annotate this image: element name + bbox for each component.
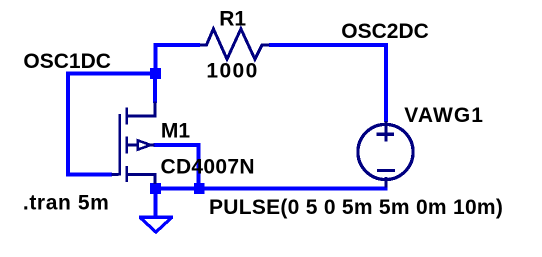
node junction square bulk/rail (194, 183, 205, 194)
transistor M1 channel segment bottom (125, 166, 128, 182)
wire: bottom rail from junction 1 to VAWG1 bottom (155, 186, 387, 190)
transistor M1 bulk lead (127, 143, 139, 146)
svg-text:.tran 5m: .tran 5m (23, 192, 110, 215)
wire: junction up to top rail, right to resistor (155, 45, 200, 70)
transistor M1 source lead (127, 175, 155, 185)
node junction square source/ground (150, 183, 161, 194)
resistor R1 (200, 29, 270, 59)
node junction square top (OSC1DC net) (150, 68, 161, 79)
wire: drain vertical from junction down to MOSFET drain pin (153, 77, 157, 103)
svg-text:PULSE(0 5 0 5m 5m 0m 10m): PULSE(0 5 0 5m 5m 0m 10m) (209, 196, 503, 219)
voltage source VAWG1 circle (358, 124, 413, 179)
svg-text:OSC1DC: OSC1DC (23, 50, 111, 73)
transistor M1 gate pin (112, 173, 119, 176)
wire: OSC1DC vertical + horizontal to top junction, down to gate (68, 74, 152, 175)
transistor M1 channel segment middle (125, 137, 128, 154)
svg-text:1000: 1000 (206, 59, 258, 82)
svg-text:CD4007N: CD4007N (161, 155, 255, 178)
wire: ground stem (153, 193, 157, 216)
transistor M1 gate bar (118, 114, 121, 176)
transistor M1 bulk pin stub (150, 143, 155, 146)
svg-text:OSC2DC: OSC2DC (341, 20, 429, 43)
svg-text:R1: R1 (219, 7, 246, 30)
voltage source VAWG1 top pin / plus vertical (384, 121, 387, 141)
svg-text:VAWG1: VAWG1 (404, 104, 484, 127)
wire: bulk lead to corner down to bottom junction 2 (154, 145, 199, 184)
ground triangle (140, 217, 172, 232)
ground bar (139, 215, 173, 219)
svg-text:M1: M1 (161, 120, 190, 143)
voltage source VAWG1 bottom pin stub (384, 177, 387, 188)
transistor M1 drain lead (127, 102, 155, 117)
voltage source VAWG1 minus sign (377, 169, 395, 172)
transistor M1 bulk arrow (138, 140, 151, 149)
wire: resistor right to top-right corner, down to VAWG1 top (269, 45, 386, 122)
voltage source VAWG1 plus sign horizontal (376, 133, 394, 136)
transistor M1 channel segment top (125, 108, 128, 125)
